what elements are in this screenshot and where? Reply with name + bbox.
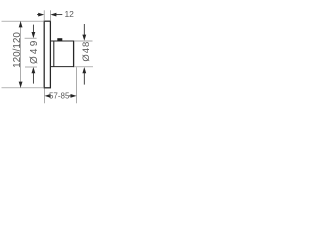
- svg-text:57-85: 57-85: [49, 91, 70, 100]
- dimension 12 arrow left (points right): [38, 13, 44, 17]
- dimension Ø48 lower arrow (points up): [82, 67, 86, 73]
- dimension 57-85 left arrow (points left): [45, 94, 51, 98]
- dimension Ø49 lower arrow (points up): [32, 67, 36, 73]
- knob cylinder outline: [50, 41, 74, 68]
- dimension 12 extension lines (plate thickness): [44, 10, 50, 21]
- svg-text:Ø49: Ø49: [29, 39, 40, 65]
- dimension 120/120 dimension line: [20, 21, 22, 88]
- dimension Ø49 upper arrow (points down): [32, 25, 34, 33]
- knob top button detail: [57, 38, 62, 41]
- svg-text:Ø48: Ø48: [81, 41, 92, 62]
- svg-text:120/120: 120/120: [12, 32, 23, 68]
- dimension Ø49 extension lines: [25, 38, 37, 67]
- dimension Ø48 extension lines (knob outline extended): [74, 41, 93, 67]
- dimension 57-85 extension lines: [45, 67, 77, 103]
- svg-text:12: 12: [64, 9, 74, 19]
- dimension 120/120 arrow down: [19, 82, 23, 88]
- dimension 57-85 right arrow (points right): [71, 94, 77, 98]
- escutcheon plate (side view): [44, 21, 50, 88]
- dimension 120/120 extension lines: [2, 21, 45, 88]
- dimension Ø48 upper arrow (points down): [83, 24, 85, 35]
- knob base ring line: [53, 41, 55, 67]
- dimension 120/120 arrow up: [19, 21, 23, 27]
- dimension 12 arrow right (points left) with tail: [50, 13, 56, 17]
